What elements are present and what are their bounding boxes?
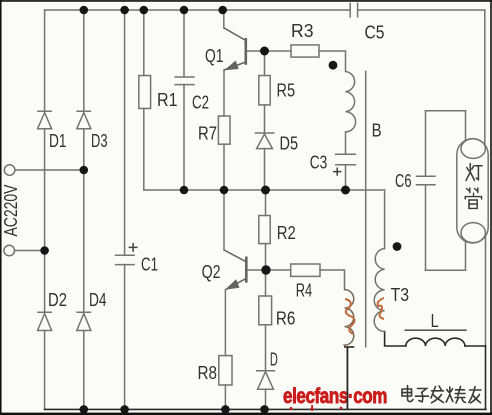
wire L right to lamp right column: [465, 345, 486, 347]
svg-text:T3: T3: [391, 284, 410, 305]
transformer T3 main winding: [374, 249, 384, 332]
transformer T3 feedback winding (orange): [345, 290, 354, 347]
watermark red drips: [290, 405, 343, 411]
wire R4 right to T3 feedback winding: [320, 270, 345, 290]
lamp top filament circle: [461, 139, 485, 159]
capacitor C3 plus sign: [333, 168, 341, 176]
resistor R4: [291, 264, 320, 276]
svg-text:Q2: Q2: [202, 261, 221, 282]
wire R5 D5 column: [264, 51, 266, 190]
svg-text:C5: C5: [365, 22, 385, 43]
watermark 烧 (hand drawn): [446, 387, 465, 404]
junction dot Q2 base / R2 R6 R4: [261, 265, 270, 274]
diode D4: [76, 312, 91, 330]
wire lamp top-left pin: [465, 111, 467, 141]
resistor R3: [291, 45, 319, 57]
svg-text:Q1: Q1: [205, 45, 224, 66]
resistor R7: [218, 116, 230, 144]
svg-text:B: B: [372, 119, 382, 140]
wire winding B to C3: [345, 132, 347, 154]
watermark 友 (hand drawn): [469, 387, 481, 404]
junction dot Q1 base / R5: [260, 47, 269, 56]
svg-text:D1: D1: [49, 130, 67, 151]
svg-text:R2: R2: [277, 222, 296, 243]
diode D: [256, 371, 275, 390]
wire bus corner down to T3 winding: [384, 190, 386, 249]
junction dot terminal1 / D3 line: [80, 166, 89, 175]
wire watermark box left edge: T3 feedback winding to bottom rail: [346, 347, 348, 409]
AC input terminal 1: [4, 165, 15, 176]
svg-text:C2: C2: [192, 92, 209, 113]
AC input terminal 2: [4, 245, 15, 256]
watermark 电 (hand drawn): [402, 386, 413, 402]
lamp bottom filament circle: [461, 223, 485, 243]
wire Q1 base to R3: [247, 50, 292, 52]
watermark 发 (hand drawn): [431, 386, 444, 403]
wire top rail right of C5 to right edge corner: [358, 9, 485, 11]
label lamp 管 (hand drawn): [465, 188, 481, 208]
wire AC terminal 1 to D3 line: [15, 169, 84, 171]
wire right edge bottom segment: [485, 346, 487, 409]
capacitor C1 (electrolytic): [115, 255, 135, 264]
svg-text:C1: C1: [141, 254, 158, 275]
junction dots bottom rail: [80, 405, 89, 414]
diode D3: [76, 111, 91, 128]
resistor R6: [259, 296, 272, 325]
svg-text:D4: D4: [89, 289, 107, 310]
wire lamp bottom-right pin down: [485, 238, 487, 347]
capacitor C2: [174, 77, 194, 85]
svg-text:R4: R4: [296, 280, 313, 301]
svg-text:R1: R1: [157, 89, 178, 110]
wire AC terminal 2 to D1 line: [15, 250, 45, 252]
wire watermark box left edge redrawn over text: [346, 347, 348, 409]
wire C6 bottom to lamp bottom-left pin: [426, 269, 466, 271]
orange scribble on T3 main winding: [378, 298, 384, 319]
wire D3 D4 column: [83, 10, 85, 409]
phasing dot transformer B: [329, 61, 338, 70]
junction dots top rail: [80, 6, 89, 15]
capacitor C6: [416, 176, 436, 184]
svg-text:R8: R8: [198, 362, 218, 383]
wire mid bus: [144, 189, 385, 191]
lamp tube outline: [457, 139, 488, 243]
wire stub joining feedback winding to box corner: [345, 346, 354, 348]
label L underline: [405, 329, 467, 331]
transformer B primary winding: [346, 72, 356, 132]
wire R1 column: [143, 10, 145, 190]
wire C6 column: [425, 111, 427, 271]
resistor R5: [259, 76, 270, 105]
svg-text:R5: R5: [277, 80, 296, 101]
capacitor C5: [350, 3, 357, 18]
svg-text:C3: C3: [310, 152, 328, 173]
transistor Q1: [224, 28, 246, 70]
svg-text:D3: D3: [91, 130, 108, 151]
wire Q2 collector from bus: [223, 190, 225, 250]
svg-text:AC220V: AC220V: [0, 184, 21, 236]
diode D2: [37, 312, 52, 330]
capacitor C3 (electrolytic): [335, 154, 356, 164]
wire D1 D2 column: [44, 10, 46, 409]
wire Q2 base to R4: [247, 269, 291, 271]
resistor R8: [219, 356, 232, 385]
junction dots mid bus: [180, 186, 189, 195]
wire R2 column: [265, 190, 267, 270]
wire transformer B core line: [365, 72, 367, 347]
svg-text:D2: D2: [48, 289, 67, 310]
resistor R1: [139, 76, 151, 109]
wire Q1 emitter to R7: [223, 70, 225, 116]
diode D1: [37, 111, 52, 128]
wire top rail left of C5: [45, 9, 350, 11]
resistor R2: [259, 216, 270, 244]
svg-text:L: L: [431, 310, 439, 331]
wire C2 column: [183, 10, 185, 190]
wire lamp bottom-left pin: [465, 241, 467, 270]
capacitor C1 plus sign: [129, 243, 138, 252]
transistor Q2: [224, 250, 246, 290]
watermark 子 (hand drawn): [416, 389, 429, 402]
wire Q1 collector lead: [223, 10, 225, 28]
svg-text:elecfans·com: elecfans·com: [283, 384, 387, 408]
wire R6 D column: [265, 270, 267, 409]
wire T3 winding bottom to L: [385, 332, 406, 347]
svg-text:C6: C6: [395, 170, 412, 191]
diode D5: [255, 133, 275, 149]
label lamp 灯 (hand drawn): [466, 164, 482, 181]
wire bottom rail: [45, 408, 486, 410]
svg-text:R6: R6: [276, 308, 296, 329]
wire R3 to winding B: [319, 51, 346, 72]
wire Q2 emitter to R8: [224, 290, 226, 409]
wire R7 to bus: [223, 144, 225, 190]
wire C6 top to lamp top-left pin: [426, 110, 466, 112]
inductor L: [406, 338, 465, 346]
orange overdraw on feedback winding: [345, 299, 355, 334]
svg-text:R3: R3: [291, 20, 314, 41]
phasing dot transformer T3: [393, 242, 402, 251]
svg-text:D: D: [270, 348, 278, 369]
svg-text:R7: R7: [198, 123, 217, 144]
wire right edge down to lamp top filament: [484, 10, 486, 145]
wire C3 to bus: [345, 165, 347, 190]
wire C1 column: [124, 10, 126, 409]
junction dot terminal2 / D1 line: [40, 246, 49, 255]
svg-text:D5: D5: [280, 133, 299, 154]
